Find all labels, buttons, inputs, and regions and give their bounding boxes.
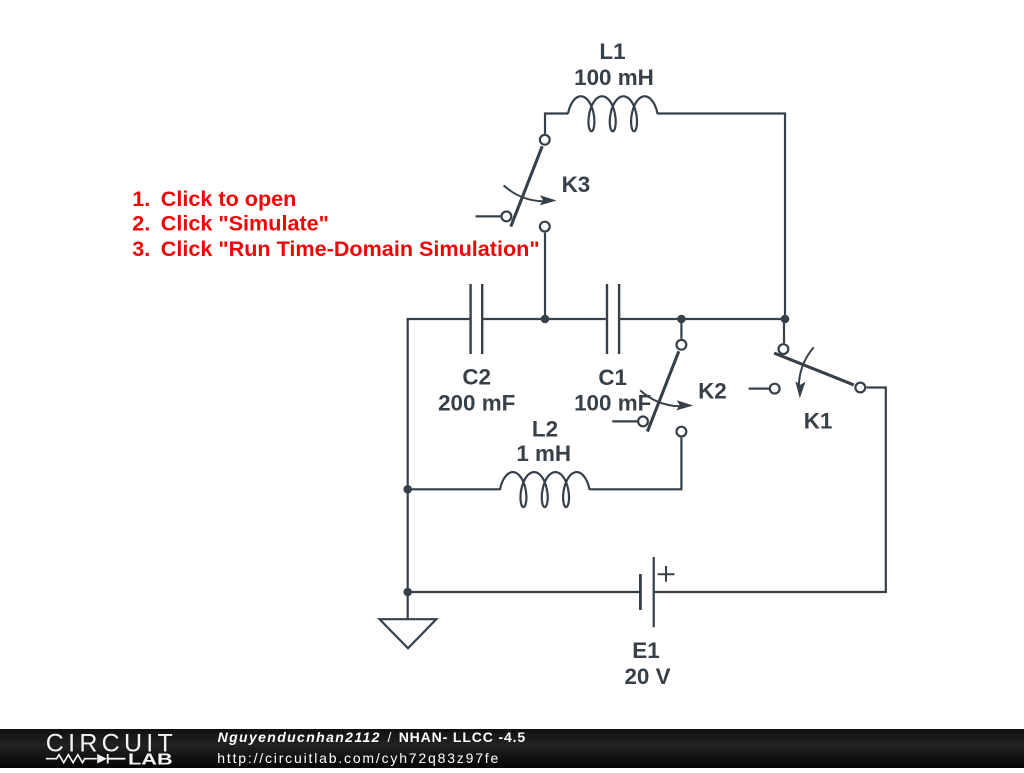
switch K2 arrowhead xyxy=(676,400,693,410)
svg-text:20 V: 20 V xyxy=(624,664,670,689)
svg-text:Click to open: Click to open xyxy=(161,186,297,211)
junction node at L2 rail left xyxy=(403,485,412,494)
switch K3 left contact stub xyxy=(476,215,501,217)
switch K2 blade xyxy=(647,351,678,431)
wire L2 rail left segment xyxy=(407,488,501,490)
svg-text:1 mH: 1 mH xyxy=(516,441,571,466)
svg-text:2.: 2. xyxy=(132,211,150,236)
switch K2 left contact stub xyxy=(612,420,637,422)
inductor L1 xyxy=(568,96,658,131)
switch K1 arrow xyxy=(799,347,814,385)
switch K3 arrowhead xyxy=(540,195,557,205)
svg-text:NHAN- LLCC -4.5: NHAN- LLCC -4.5 xyxy=(399,729,526,745)
svg-text:200 mF: 200 mF xyxy=(438,391,515,416)
svg-text:E1: E1 xyxy=(632,638,659,663)
footer bar xyxy=(0,729,1024,768)
switch K1 arrowhead xyxy=(795,381,805,398)
wire from node B down to switch K1 xyxy=(783,319,785,343)
switch K3 top terminal xyxy=(540,135,550,145)
svg-text:3.: 3. xyxy=(132,236,150,261)
switch K2 top terminal xyxy=(677,340,687,350)
svg-text:K2: K2 xyxy=(698,379,727,404)
switch K3 left contact terminal xyxy=(502,212,512,222)
switch K2 arrow xyxy=(640,390,679,406)
wire L2 rail right segment xyxy=(589,488,682,490)
wire ground lead xyxy=(407,592,409,619)
svg-text:Click "Simulate": Click "Simulate" xyxy=(161,211,329,236)
switch K1 left contact stub xyxy=(749,388,770,390)
battery E1 positive plate xyxy=(653,557,655,627)
wire top rail from L1 to top-right corner xyxy=(657,112,786,114)
svg-text:Nguyenducnhan2112: Nguyenducnhan2112 xyxy=(218,729,380,745)
wire from switch K3 bottom terminal down to middle rail xyxy=(544,233,546,319)
wire from switch K1 right terminal to right drop xyxy=(866,388,887,593)
battery E1 plus sign xyxy=(658,566,675,582)
switch K2 bottom terminal xyxy=(677,427,687,437)
wire middle rail between C2 and C1 xyxy=(483,318,606,320)
wire middle rail left segment to capacitor C2 xyxy=(407,318,470,320)
junction node B at x=785 xyxy=(781,315,790,324)
svg-text:LAB: LAB xyxy=(128,752,173,768)
svg-text:100 mF: 100 mF xyxy=(574,391,651,416)
wire left drop from middle rail to bottom rail xyxy=(407,319,409,592)
svg-text:C1: C1 xyxy=(598,365,627,390)
ground symbol xyxy=(380,619,437,648)
wire bottom rail right of battery E1 xyxy=(654,591,887,593)
wire from middle rail down to switch K2 xyxy=(680,319,682,339)
svg-text:L2: L2 xyxy=(532,417,558,442)
logo resistor zigzag xyxy=(46,755,97,763)
capacitor C1 plates xyxy=(607,284,619,354)
svg-text:Click "Run Time-Domain Simulat: Click "Run Time-Domain Simulation" xyxy=(161,236,540,261)
svg-text:http://circuitlab.com/cyh72q83: http://circuitlab.com/cyh72q83z97fe xyxy=(217,750,498,766)
switch K3 bottom terminal xyxy=(540,222,550,232)
switch K3 blade xyxy=(511,146,542,226)
switch K1 top terminal xyxy=(779,344,789,354)
svg-text:/: / xyxy=(388,729,392,745)
switch K1 left contact terminal xyxy=(770,384,780,394)
svg-text:L1: L1 xyxy=(599,39,625,64)
logo diode symbol xyxy=(97,754,107,764)
svg-text:C2: C2 xyxy=(462,365,491,390)
wire bottom rail left of battery E1 xyxy=(407,591,639,593)
wire top-left lead from L1 to K3 xyxy=(545,112,568,133)
battery E1 negative plate xyxy=(639,574,642,610)
svg-text:K3: K3 xyxy=(562,172,591,197)
switch K1 right terminal xyxy=(855,383,865,393)
svg-text:K1: K1 xyxy=(804,408,833,433)
wire from switch K2 bottom terminal down to L2 rail xyxy=(680,438,682,490)
switch K1 blade xyxy=(774,353,854,385)
switch K3 arrow xyxy=(504,185,543,201)
svg-text:1.: 1. xyxy=(132,186,150,211)
inductor L2 xyxy=(500,472,590,507)
wire right drop from top rail to node B xyxy=(784,114,786,320)
capacitor C2 plates xyxy=(471,284,483,354)
switch K2 left contact terminal xyxy=(638,417,648,427)
junction node at K2 top x=681 xyxy=(677,315,686,324)
svg-text:100 mH: 100 mH xyxy=(574,65,654,90)
junction ground node xyxy=(403,588,412,597)
wire middle rail from C1 to node B xyxy=(620,318,785,320)
junction node at K3/C2/C1 rail x=545 xyxy=(541,315,550,324)
